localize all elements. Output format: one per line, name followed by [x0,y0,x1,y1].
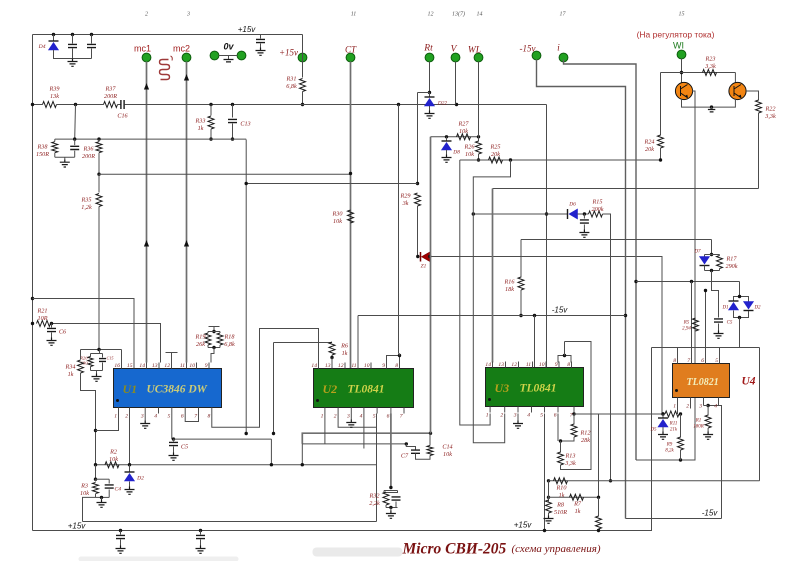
ground R3C4 [97,500,107,508]
svg-text:9: 9 [205,363,208,369]
wire R27 row [431,136,479,138]
junction [389,486,392,489]
svg-text:4: 4 [527,413,530,419]
junction [94,463,97,466]
wire U4 pin8 riser [677,348,679,360]
mc1 bus wire [146,62,148,363]
wire row y239 [521,239,712,241]
ground [60,159,70,167]
arrow mc1 low [144,240,149,247]
capacitor [68,44,77,47]
ground R1 [703,432,713,440]
wire [74,139,76,145]
mc2 bus wire [186,62,188,363]
wire [399,354,401,356]
svg-text:14: 14 [485,362,491,368]
svg-text:0v: 0v [223,42,234,52]
op-amp U2 bottom pins [321,408,404,420]
wire [51,324,53,328]
wire [739,282,741,297]
wire [578,213,589,215]
wire [207,332,209,334]
resistor R13 [558,452,564,465]
junction [90,33,93,36]
resistor R9 [678,437,684,450]
wire [90,367,92,371]
wire [108,490,110,498]
wire [301,444,303,465]
wire [219,55,238,57]
wire U1 pin3 [144,414,146,421]
svg-text:UC3846 DW: UC3846 DW [147,384,208,396]
svg-text:+15v: +15v [68,522,87,531]
junction [330,356,333,359]
ground D22 [425,111,435,119]
node Rt [425,53,434,62]
wire [598,497,600,516]
wire [219,345,221,348]
diode D22 [425,97,435,106]
svg-text:D7: D7 [693,250,701,255]
node 0v right [237,51,246,60]
junction [71,33,74,36]
svg-text:D2: D2 [136,476,144,482]
bus wire x695 [694,188,696,461]
wire to U3 pin1 [460,160,490,425]
CT bus wire [350,62,352,369]
wire row y281 [636,281,740,283]
svg-text:TL0841: TL0841 [348,384,385,396]
wire R23 row [661,72,736,74]
wire U2 pin9-8 link [387,356,400,363]
transistor Q1 [675,82,692,99]
wire [208,331,220,333]
resistor R35 [96,194,102,207]
junction [212,330,215,333]
wire U2 pin6 [390,414,392,488]
svg-text:C15: C15 [107,356,114,361]
wire [210,129,212,139]
resistor R1 [705,415,711,428]
capacitor C5 [169,442,178,445]
svg-text:12: 12 [164,363,170,369]
wire [54,153,56,158]
junction [97,173,100,176]
wire [564,342,566,356]
wire [74,151,76,158]
wire -15v bottom [626,518,722,520]
junction [519,314,522,317]
wire [228,56,230,60]
wire [662,414,664,419]
wire [200,540,202,546]
i bus wire [564,60,637,461]
svg-text:1: 1 [673,404,676,410]
svg-text:15: 15 [127,363,133,369]
svg-text:11: 11 [526,362,531,368]
node -15v [532,51,541,60]
junction [710,105,713,108]
svg-text:R3913k: R3913k [49,86,60,100]
wire [719,255,721,256]
svg-text:R8510R: R8510R [554,502,567,516]
wire U3 pin7 [573,407,575,415]
wire [573,414,575,425]
node +15v [298,53,307,62]
wire U1 pin5 [171,414,173,440]
wire rail y173 [99,173,351,175]
junction [545,212,548,215]
wire U3 pin11 riser [534,316,536,368]
svg-text:R2420k: R2420k [644,139,655,153]
wire [561,437,575,441]
bottom +15v rail wire [33,348,652,531]
junction [301,103,304,106]
node V [451,53,460,62]
svg-text:D4: D4 [38,44,46,50]
wire [108,479,110,483]
svg-text:5: 5 [540,413,543,419]
wire [219,332,221,334]
wire [520,240,522,278]
svg-text:R17290k: R17290k [725,256,737,270]
resistor R33 [208,116,214,129]
svg-text:3: 3 [346,414,350,420]
wire U3 pin6 [557,414,559,442]
diode D6 [568,209,578,219]
svg-text:R38150R: R38150R [36,144,49,158]
resistor R38 [52,142,58,153]
svg-text:14: 14 [139,363,145,369]
svg-text:R61k: R61k [340,343,349,357]
svg-text:2: 2 [145,12,148,18]
junction [50,322,53,325]
arrow mc1 [144,83,149,90]
svg-text:5: 5 [715,358,718,364]
diode Z1 [421,252,430,262]
wire [96,496,110,498]
junction [128,463,131,466]
bus wire x273 [273,343,275,434]
svg-text:U3: U3 [495,381,510,395]
arrow mc2 [184,74,189,81]
op-amp U2 [314,369,414,408]
ground 0v [224,60,234,62]
svg-text:D8: D8 [452,150,460,156]
svg-text:8: 8 [567,362,570,368]
svg-text:R71k: R71k [573,501,582,515]
svg-text:14: 14 [477,11,483,18]
junction [609,479,612,482]
wire [384,490,398,492]
capacitor [70,146,79,149]
svg-text:U4: U4 [741,376,755,388]
wire [96,478,110,480]
svg-text:6: 6 [181,414,184,420]
op-amp U3 pin1 mark [488,398,491,401]
svg-text:(На регулятор тока): (На регулятор тока) [637,30,715,40]
wire row y139 [55,138,246,140]
junction [428,91,431,94]
svg-text:6: 6 [554,413,557,419]
svg-text:4: 4 [154,414,157,420]
wire [429,106,431,111]
node 0v left [210,51,219,60]
junction [212,346,215,349]
svg-text:C5: C5 [181,444,188,451]
wire R25 row [460,159,661,161]
svg-text:WI: WI [673,41,684,51]
node i [559,53,568,62]
junction [680,71,683,74]
junction [405,442,408,445]
wire R6 row [274,342,333,344]
svg-text:R293k: R293k [400,193,411,207]
junction [690,280,693,283]
junction [455,103,458,106]
wire U3 pin3 [517,414,519,421]
junction on frame [31,297,34,300]
coil mark [171,56,173,61]
svg-text:7: 7 [194,414,197,420]
capacitor C6 [47,328,56,331]
wire [102,363,104,371]
ground [196,546,206,554]
bus wire x546 to U3 pin10 [546,105,548,368]
svg-text:Z1: Z1 [421,264,427,270]
svg-text:3: 3 [186,12,190,18]
svg-text:R223,3k: R223,3k [764,106,776,120]
junction [547,496,550,499]
resistor R14 [596,516,602,529]
wire to C5r [712,271,719,318]
wire [51,333,53,338]
capacitor [392,497,401,500]
wire U1 pin8 to U2 pin14 [212,329,319,428]
op-amp U4 [673,364,730,398]
wire to U1 pin15 [33,299,135,363]
wire [91,35,93,44]
inner bottom wire [83,521,377,523]
resistor R7 [570,494,584,500]
junction [583,212,586,215]
junction [231,137,234,140]
op-amp U4 bottom pins [673,398,718,410]
wire U2 pin4 [363,414,365,449]
wire row y443 [302,443,406,445]
wire [680,414,682,438]
wire [91,353,103,355]
wire row y480 [549,480,760,482]
wire [711,107,713,109]
resistor R30 [348,210,354,223]
svg-text:2: 2 [500,413,503,419]
diode D4 [49,41,59,50]
svg-text:R341k: R341k [65,364,76,378]
wire [718,324,720,331]
wire rail y256 to D5 row [430,257,662,415]
svg-text:11: 11 [351,12,357,18]
wire [173,439,175,441]
wire row y188 [493,188,759,190]
wire [91,49,93,59]
wire U4 pin4 [718,404,720,406]
svg-text:R351,2k: R351,2k [81,197,92,211]
wire [707,406,709,416]
svg-text:R15200k: R15200k [591,199,603,213]
resistor R11 [665,411,679,417]
wire [548,481,550,502]
wire [429,433,431,445]
wire [210,105,212,116]
op-amp U1 [114,369,222,408]
wire [232,105,234,118]
wire [446,137,448,142]
svg-text:1: 1 [321,414,324,420]
wire [418,92,430,94]
wire -15v row [358,315,626,317]
svg-text:C7: C7 [401,453,409,460]
ground [68,59,78,67]
resistor R2 [105,462,119,468]
wire [57,104,104,106]
wire [96,371,98,374]
resistor R12 [571,424,577,437]
wire [72,35,74,44]
wire [704,255,706,257]
svg-text:R186,8k: R186,8k [224,334,236,348]
svg-text:R133,3k: R133,3k [564,453,576,467]
wire [446,150,448,155]
svg-text:C13: C13 [240,121,250,128]
svg-text:R233,3k: R233,3k [704,56,716,70]
resistor R26 [476,141,482,154]
svg-text:3: 3 [140,414,144,420]
wire [416,454,431,460]
svg-text:Rt: Rt [423,44,433,54]
junction [209,103,212,106]
wire [260,35,262,39]
wire box top [652,347,760,349]
resistor R29 [415,193,421,206]
wire [101,497,103,499]
svg-text:C5: C5 [727,321,733,326]
filter capacitor [116,535,125,538]
node mc2 [182,53,191,62]
resistor R8 [546,500,552,513]
svg-text:12: 12 [511,362,517,368]
resistor R27 [457,134,471,140]
svg-text:D22: D22 [437,101,448,107]
capacitor C4 [105,485,114,488]
wire [417,206,419,257]
WL bus wire [478,62,480,132]
wire to R3/C4 [83,497,96,521]
junction [661,412,664,415]
svg-text:16: 16 [114,363,120,369]
wire [598,529,600,531]
filter capacitor [196,535,205,538]
wire to rail [81,373,96,465]
resistor R39 [43,102,57,108]
ground [47,338,57,346]
svg-text:Micro СВИ-205: Micro СВИ-205 [402,541,507,558]
svg-text:R37200R: R37200R [104,86,117,100]
junction [563,354,566,357]
inductor coil [160,60,170,80]
wire [270,439,272,465]
diode D1 [729,301,739,310]
Rt bus wire [429,62,431,93]
V bus wire [455,62,457,105]
junction [547,479,550,482]
op-amp U2 pin1 mark [316,399,319,402]
wire [54,139,56,141]
svg-text:R2710k: R2710k [458,121,470,135]
wire to C7 [406,444,415,450]
bus wire x492 to U3 pin14 [492,189,494,363]
wire [90,354,92,357]
junction [270,463,273,466]
wire [81,349,122,351]
svg-text:R1926k: R1926k [195,334,206,348]
svg-text:8: 8 [208,414,211,420]
resistor R31 [300,79,306,92]
capacitor C5 right [714,319,723,322]
junction [509,158,512,161]
wire U1 pin2 [129,414,131,465]
wire to U1 pin13 [51,324,161,363]
node WI [677,50,686,59]
junction [706,404,709,407]
wire [302,92,304,105]
watermark [313,548,403,557]
svg-text:TL0821: TL0821 [687,377,719,388]
wire [385,505,387,508]
bus wire x417 [417,93,419,184]
svg-text:R2520k: R2520k [490,144,501,158]
watermark2 [79,557,239,561]
wire [734,297,740,302]
svg-text:R1618k: R1618k [504,279,516,293]
bus wire x430 [430,137,432,433]
wire [662,427,664,432]
wire U1 pin9 riser [211,348,214,363]
svg-text:3: 3 [698,404,702,410]
antenna bar [209,326,220,328]
junction [97,137,100,140]
wire [704,266,706,271]
wire [95,494,97,497]
resistor R19 [205,333,211,345]
svg-text:mc2: mc2 [173,44,190,54]
svg-text:R52,94: R52,94 [682,321,691,332]
wire [719,269,721,271]
wire [399,353,400,355]
resistor R17 [717,256,723,269]
wire R24 top [660,73,662,136]
svg-text:5: 5 [373,414,376,420]
resistor R37 [104,102,118,108]
wire [120,531,122,535]
diode D7 [700,257,710,266]
svg-text:15: 15 [679,12,685,18]
svg-text:-15v: -15v [552,306,569,315]
svg-text:R316,8k: R316,8k [286,76,297,90]
wire [129,482,131,487]
junction [597,496,600,499]
junction [74,103,77,106]
